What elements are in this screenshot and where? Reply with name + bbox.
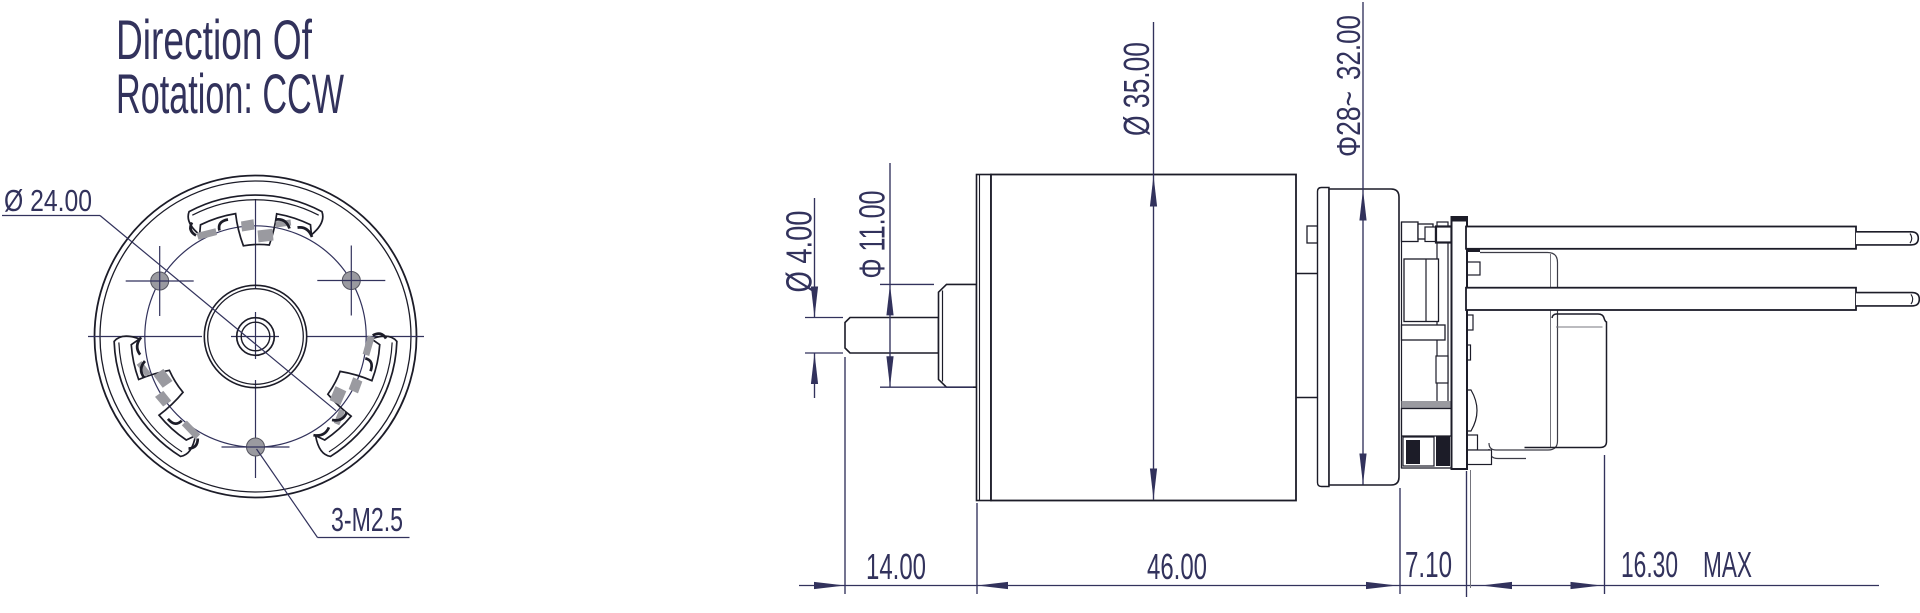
arrows bottom chain xyxy=(814,582,845,589)
svg-text:Ø 35.00: Ø 35.00 xyxy=(1116,42,1157,136)
neck between body and end cap xyxy=(1296,273,1318,275)
boss dia 11 xyxy=(939,284,977,387)
svg-text:46.00: 46.00 xyxy=(1147,546,1207,587)
svg-text:Ø 4.00: Ø 4.00 xyxy=(779,211,820,293)
horizontal centerline front view xyxy=(88,336,202,338)
extension line capacitor rear xyxy=(1604,455,1606,594)
svg-text:32.00: 32.00 xyxy=(1330,15,1367,80)
extension line bar rear xyxy=(1466,471,1468,597)
svg-text:Ø 24.00: Ø 24.00 xyxy=(4,183,92,218)
brush column left edge xyxy=(1401,222,1403,468)
svg-text:Φ 11.00: Φ 11.00 xyxy=(852,191,893,279)
motor front view outer shell xyxy=(95,176,417,498)
brush block lower xyxy=(1402,409,1453,469)
svg-text:7.10: 7.10 xyxy=(1405,544,1452,585)
shaft circles xyxy=(237,318,275,356)
lead wire 2 xyxy=(1466,288,1856,310)
svg-text:16.30: 16.30 xyxy=(1621,544,1678,585)
brush housing back plate xyxy=(1437,222,1448,465)
end cap dia 28-32 xyxy=(1329,189,1399,485)
terminal small parts xyxy=(1466,240,1480,252)
dim dia 28-32 xyxy=(1362,2,1364,485)
svg-text:Rotation: CCW: Rotation: CCW xyxy=(116,62,344,125)
brush block upper xyxy=(1404,259,1439,322)
svg-text:3-M2.5: 3-M2.5 xyxy=(331,501,403,538)
terminal bar xyxy=(1452,218,1468,469)
terminal block top xyxy=(1402,222,1419,242)
brush housing ghost outline xyxy=(1480,253,1558,451)
lead wire 1 xyxy=(1466,227,1856,249)
crimp tab on body xyxy=(1307,226,1318,243)
brush block shallow xyxy=(1402,325,1446,340)
dim dia 35.00 xyxy=(1153,22,1155,500)
capacitor C1 xyxy=(1525,314,1607,448)
M2.5 hole upper-right xyxy=(342,272,360,290)
center boss circles xyxy=(204,285,306,387)
M2.5 hole bottom xyxy=(247,438,265,456)
gray strip xyxy=(1402,401,1453,408)
vertical centerline front view xyxy=(255,199,257,288)
end cap thin plate xyxy=(1318,188,1330,487)
svg-text:Φ28~: Φ28~ xyxy=(1330,91,1367,157)
vent top xyxy=(188,195,323,246)
vent lower-left xyxy=(99,324,210,466)
svg-text:MAX: MAX xyxy=(1703,544,1752,585)
leader line dia 24.00 xyxy=(2,215,100,217)
svg-text:14.00: 14.00 xyxy=(866,546,926,587)
front flange ring xyxy=(977,175,992,501)
brush cap bump xyxy=(1466,390,1477,431)
extension line shaft end xyxy=(844,357,846,594)
extension line cap rear xyxy=(1399,488,1401,594)
bottom dimension line xyxy=(799,585,1879,587)
dim dia 11.00 xyxy=(880,283,934,285)
shaft dia 4 xyxy=(845,318,939,354)
motor body dia 35 x 46 xyxy=(991,175,1296,501)
dim dia 4.00 xyxy=(805,317,843,319)
vent lower-right xyxy=(300,324,411,466)
bolt circle dia 24 xyxy=(145,226,366,447)
extension line body front xyxy=(976,503,978,594)
small mid block xyxy=(1436,356,1448,383)
M2.5 hole upper-left xyxy=(151,272,169,290)
leader line 3-M2.5 xyxy=(257,449,318,538)
